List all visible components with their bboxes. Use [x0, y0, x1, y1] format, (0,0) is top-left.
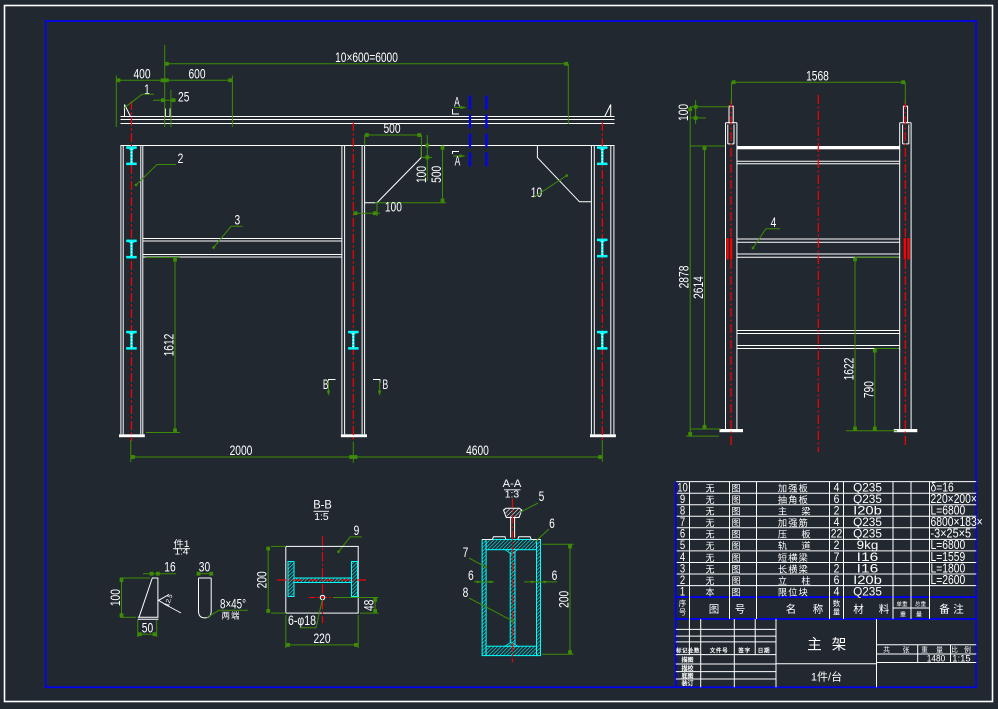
svg-text:2878: 2878 — [677, 266, 692, 289]
svg-text:6: 6 — [549, 516, 555, 531]
svg-text:主: 主 — [807, 637, 822, 654]
svg-text:重: 重 — [900, 611, 906, 619]
svg-text:6: 6 — [468, 568, 474, 583]
svg-text:量: 量 — [833, 608, 841, 617]
svg-text:无: 无 — [705, 495, 714, 505]
svg-text:无: 无 — [705, 541, 714, 551]
svg-text:无: 无 — [705, 530, 714, 540]
svg-text:描校: 描校 — [681, 665, 694, 673]
svg-text:100: 100 — [676, 104, 691, 121]
svg-text:30: 30 — [199, 560, 210, 575]
svg-text:标记处数: 标记处数 — [675, 647, 700, 655]
svg-text:图: 图 — [731, 553, 740, 563]
svg-text:无: 无 — [705, 507, 714, 517]
svg-text:底图: 底图 — [681, 672, 693, 680]
svg-text:无: 无 — [705, 484, 714, 494]
svg-text:备: 备 — [939, 603, 950, 616]
svg-text:立: 立 — [778, 575, 787, 586]
svg-text:8: 8 — [463, 585, 469, 600]
svg-text:L=2600: L=2600 — [931, 573, 966, 587]
svg-text:1:4: 1:4 — [175, 547, 189, 557]
svg-text:数: 数 — [833, 598, 841, 608]
svg-text:无: 无 — [705, 564, 714, 574]
svg-text:无: 无 — [705, 518, 714, 528]
svg-text:2: 2 — [178, 151, 184, 166]
svg-text:图: 图 — [731, 507, 740, 517]
svg-text:板: 板 — [801, 529, 810, 540]
svg-text:4600: 4600 — [466, 443, 489, 458]
svg-text:本: 本 — [705, 587, 714, 598]
svg-text:图: 图 — [731, 495, 740, 505]
svg-text:道: 道 — [801, 540, 810, 551]
svg-text:A-A: A-A — [503, 478, 522, 490]
svg-text:抽角板: 抽角板 — [778, 494, 809, 505]
svg-text:4: 4 — [834, 585, 840, 599]
svg-text:梁: 梁 — [801, 506, 810, 517]
svg-text:48: 48 — [362, 600, 377, 611]
svg-text:16: 16 — [164, 560, 175, 575]
svg-text:序: 序 — [679, 598, 687, 608]
svg-text:文件号: 文件号 — [710, 647, 729, 655]
svg-text:1480: 1480 — [927, 653, 945, 663]
svg-text:1568: 1568 — [806, 68, 829, 83]
svg-text:4: 4 — [771, 215, 777, 230]
svg-text:100: 100 — [108, 589, 123, 606]
svg-text:25: 25 — [178, 90, 189, 105]
svg-text:长横梁: 长横梁 — [778, 563, 809, 574]
svg-text:200: 200 — [255, 571, 270, 588]
svg-text:1622: 1622 — [842, 358, 857, 381]
svg-text:签字: 签字 — [737, 647, 750, 655]
svg-text:2000: 2000 — [230, 443, 253, 458]
svg-text:装订: 装订 — [680, 680, 693, 688]
svg-text:600: 600 — [188, 67, 205, 82]
svg-text:7: 7 — [463, 545, 469, 560]
svg-text:共: 共 — [883, 645, 890, 654]
svg-text:500: 500 — [429, 166, 444, 183]
svg-text:材: 材 — [853, 603, 864, 616]
svg-text:1: 1 — [680, 585, 686, 599]
svg-text:无: 无 — [705, 576, 714, 586]
svg-text:A: A — [455, 154, 461, 169]
svg-text:注: 注 — [953, 603, 964, 616]
svg-text:B: B — [382, 377, 388, 392]
svg-text:200: 200 — [557, 591, 572, 608]
svg-text:短横梁: 短横梁 — [778, 552, 809, 563]
svg-text:500: 500 — [383, 121, 400, 136]
svg-text:图: 图 — [731, 541, 740, 551]
svg-text:图: 图 — [731, 484, 740, 494]
svg-text:加强筋: 加强筋 — [778, 517, 809, 528]
svg-text:图: 图 — [731, 588, 740, 598]
svg-text:架: 架 — [832, 637, 847, 654]
svg-text:8×45°: 8×45° — [220, 597, 246, 612]
svg-text:100: 100 — [414, 166, 429, 183]
svg-text:9: 9 — [354, 523, 360, 538]
svg-text:B-B: B-B — [313, 498, 332, 512]
svg-text:1612: 1612 — [162, 334, 177, 357]
svg-text:图: 图 — [731, 576, 740, 586]
svg-text:量: 量 — [916, 612, 922, 619]
svg-text:柱: 柱 — [801, 575, 810, 586]
svg-text:B: B — [323, 377, 329, 392]
svg-text:总重: 总重 — [915, 600, 927, 608]
svg-text:400: 400 — [133, 67, 150, 82]
svg-text:1:5: 1:5 — [314, 511, 329, 523]
svg-text:日期: 日期 — [758, 647, 770, 655]
svg-text:220: 220 — [313, 631, 330, 646]
svg-text:10×600=6000: 10×600=6000 — [335, 50, 398, 65]
svg-text:加强板: 加强板 — [778, 483, 809, 494]
svg-text:轨: 轨 — [778, 540, 787, 551]
svg-text:图: 图 — [731, 530, 740, 540]
svg-text:790: 790 — [861, 381, 876, 398]
svg-text:3: 3 — [234, 213, 240, 228]
svg-text:1件/台: 1件/台 — [811, 670, 842, 684]
svg-text:两端: 两端 — [221, 611, 240, 621]
svg-text:称: 称 — [813, 603, 824, 616]
svg-text:5: 5 — [539, 489, 545, 504]
svg-text:50: 50 — [142, 620, 153, 635]
svg-text:料: 料 — [879, 603, 890, 616]
svg-text:100: 100 — [385, 199, 402, 214]
svg-text:主: 主 — [778, 506, 787, 517]
svg-text:无: 无 — [705, 553, 714, 563]
svg-text:压: 压 — [778, 530, 787, 540]
svg-text:Q235: Q235 — [853, 585, 882, 599]
svg-text:名: 名 — [786, 603, 797, 616]
svg-text:号: 号 — [679, 608, 687, 617]
svg-text:6-φ18: 6-φ18 — [288, 613, 316, 628]
svg-text:6: 6 — [552, 568, 558, 583]
svg-text:图: 图 — [731, 518, 740, 528]
svg-text:1:15: 1:15 — [952, 653, 970, 663]
svg-text:2614: 2614 — [691, 276, 706, 299]
svg-text:单重: 单重 — [896, 600, 908, 608]
svg-text:图: 图 — [709, 604, 720, 616]
svg-text:张: 张 — [903, 645, 910, 654]
svg-text:图: 图 — [731, 564, 740, 574]
svg-text:限位块: 限位块 — [778, 587, 809, 598]
svg-text:描图: 描图 — [681, 656, 693, 664]
svg-text:号: 号 — [735, 604, 746, 616]
